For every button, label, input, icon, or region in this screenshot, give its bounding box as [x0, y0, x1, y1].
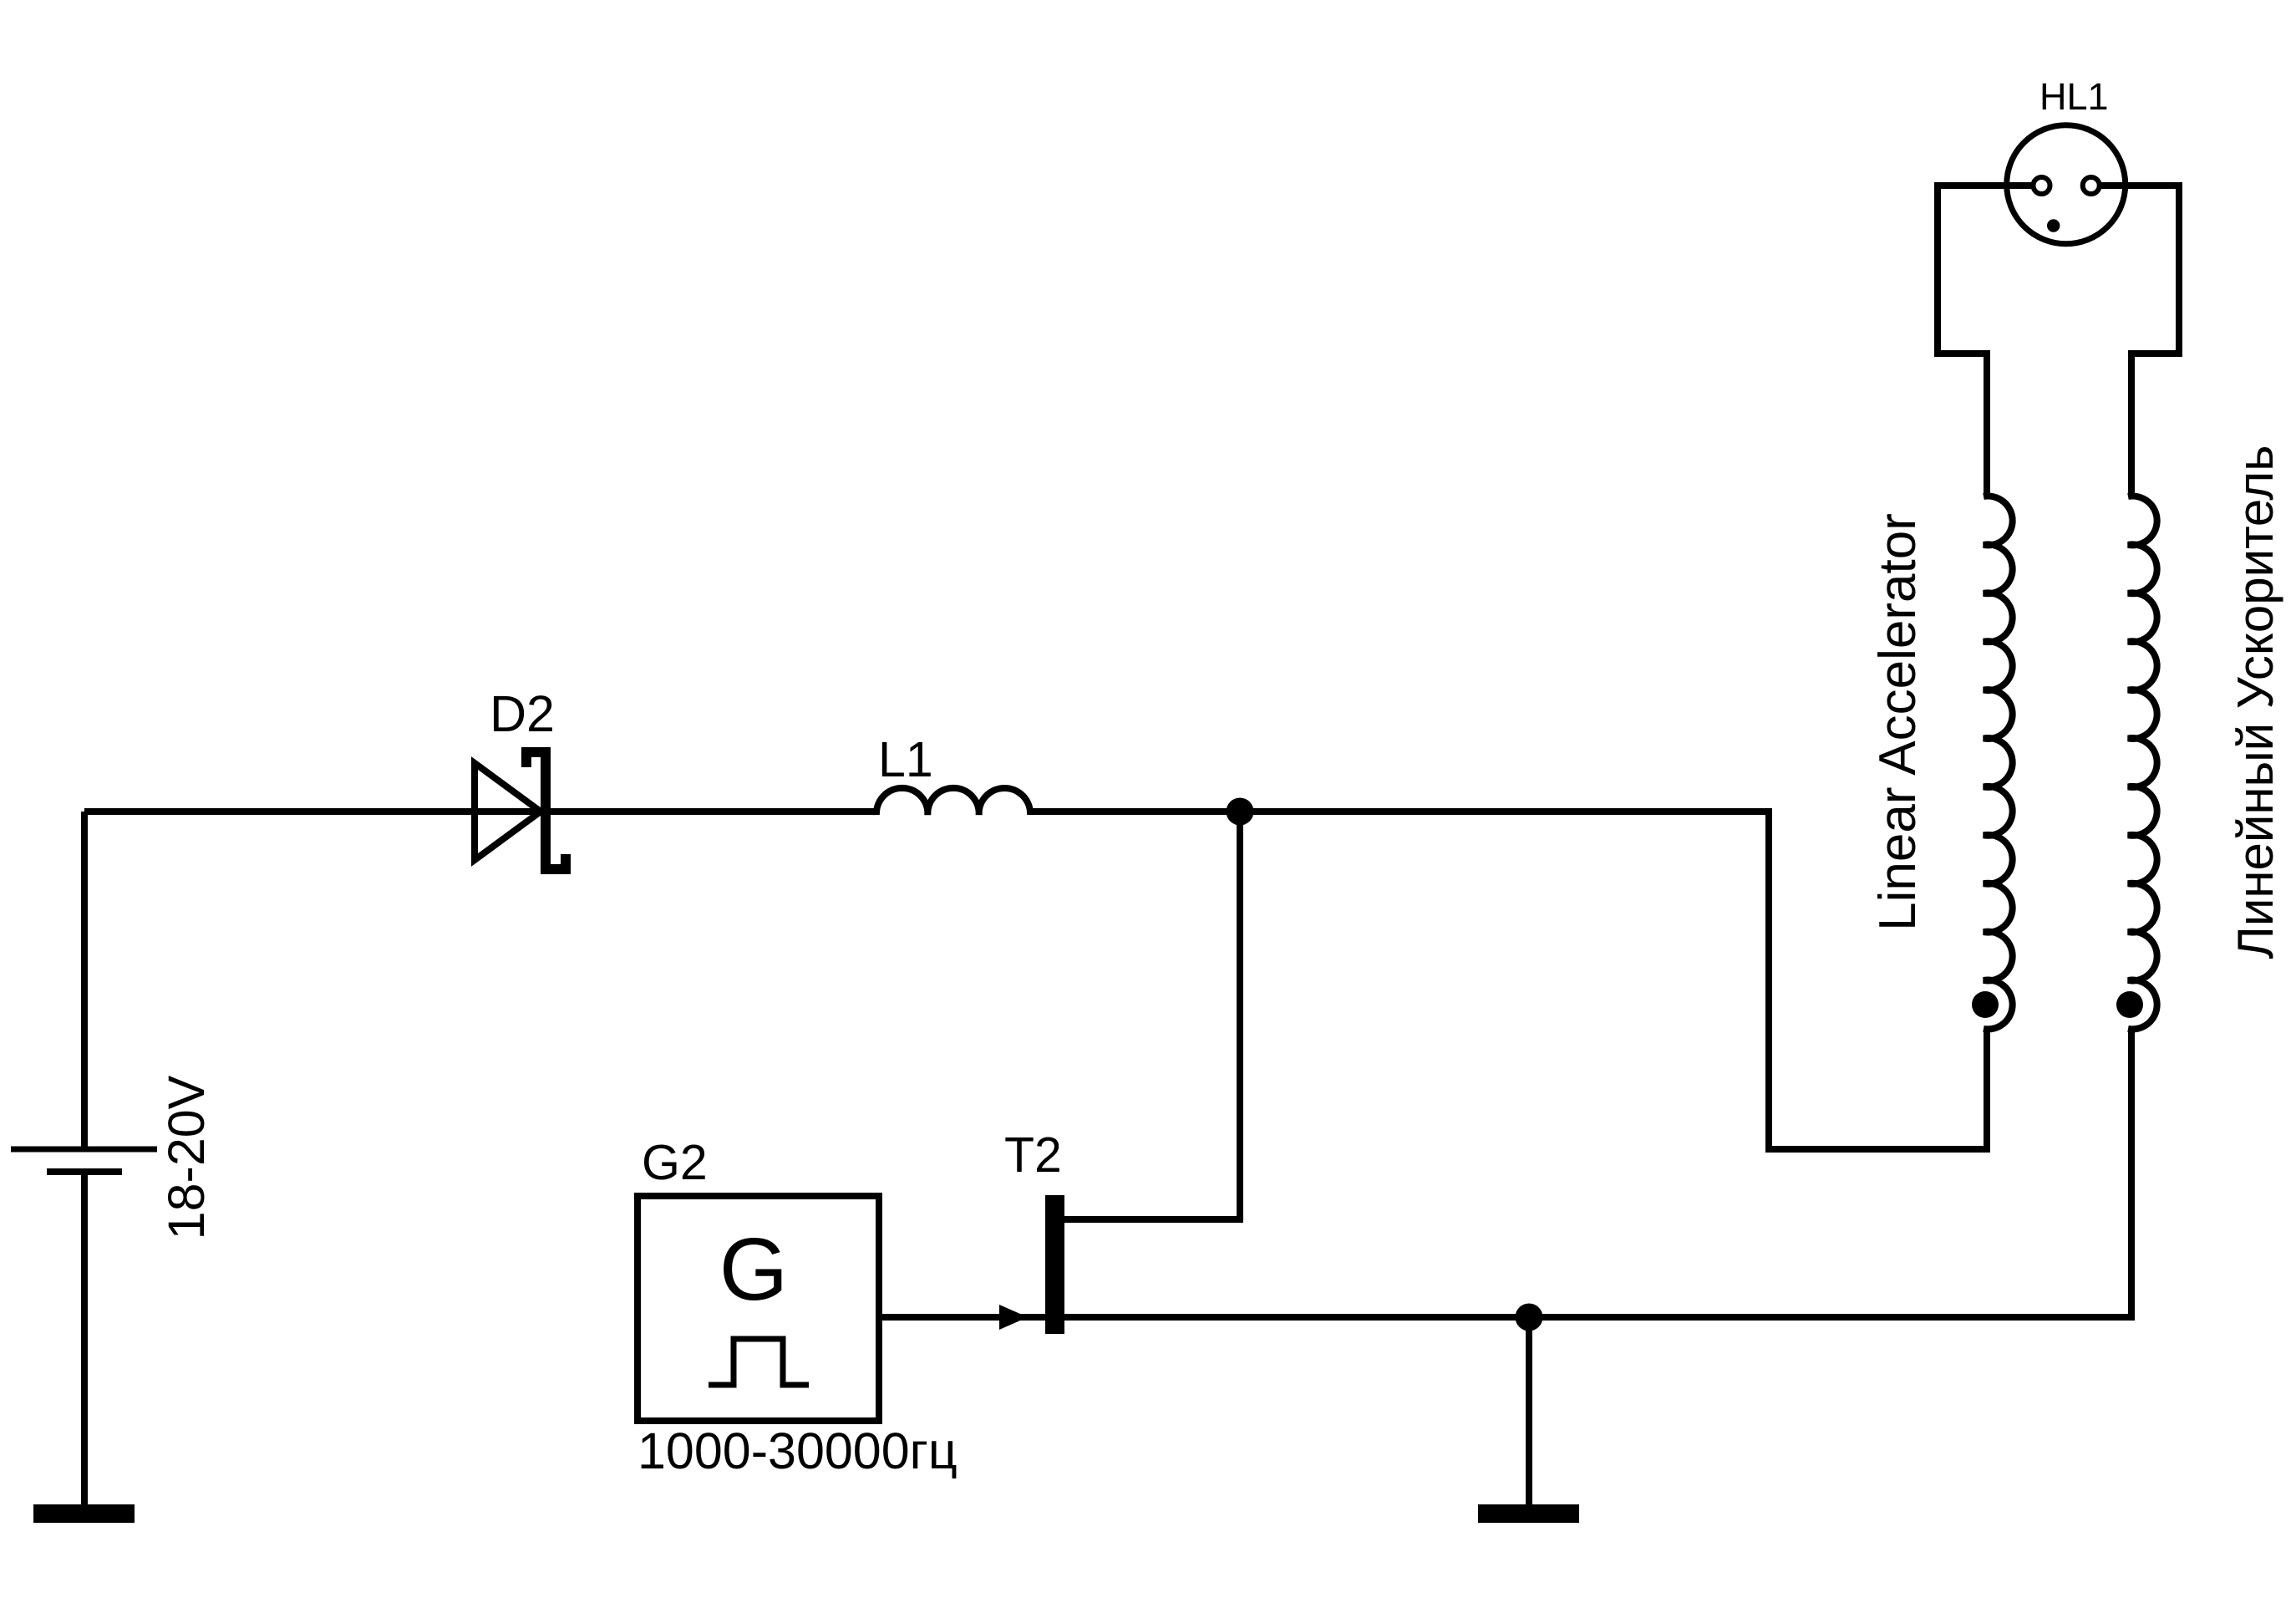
svg-text:HL1: HL1 [2039, 75, 2109, 118]
svg-text:G2: G2 [642, 1135, 708, 1190]
svg-text:G: G [719, 1220, 788, 1319]
svg-text:Linear Accelerator: Linear Accelerator [1869, 513, 1927, 931]
svg-text:L1: L1 [878, 732, 933, 787]
svg-text:Линейный Ускоритель: Линейный Ускоритель [2227, 445, 2283, 959]
svg-text:T2: T2 [1004, 1127, 1062, 1183]
svg-text:18-20V: 18-20V [158, 1075, 215, 1239]
svg-text:1000-30000гц: 1000-30000гц [637, 1422, 958, 1479]
svg-text:D2: D2 [490, 685, 555, 742]
